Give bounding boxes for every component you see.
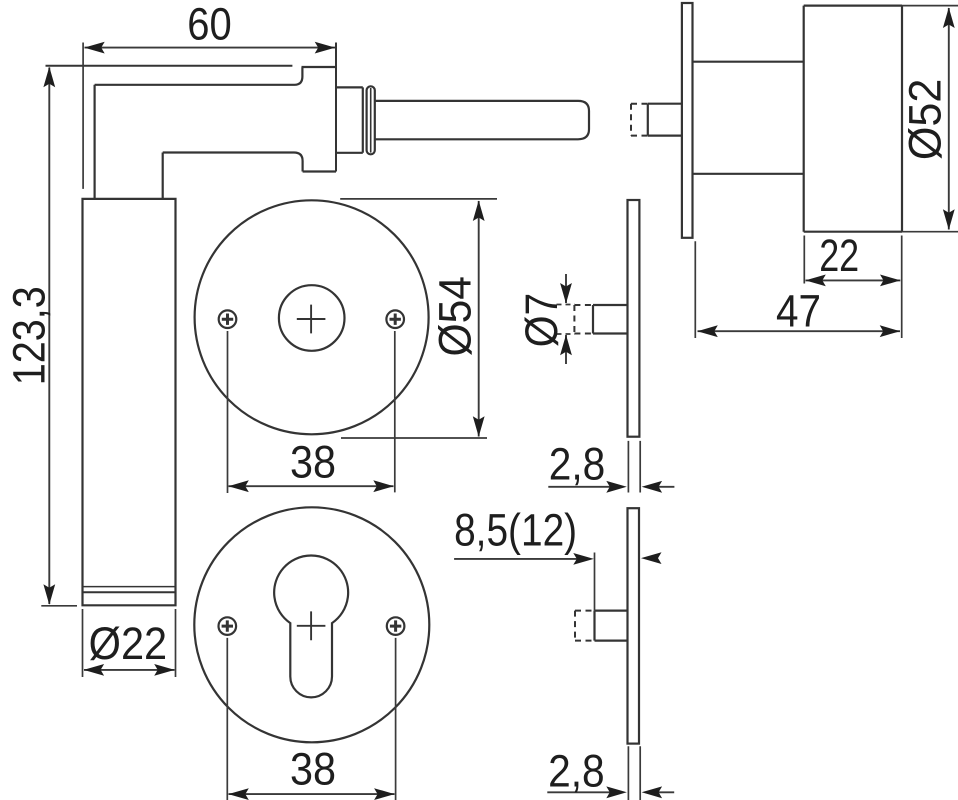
dimension Ø7: lower arrow line (565, 335, 567, 364)
upper rosette fixing peg solid part (593, 305, 628, 334)
dimension 38 lower: line (229, 793, 395, 795)
dimension 2,8 lower: extension lines (628, 746, 640, 800)
upper rosette fixing peg hidden part (dashed) (574, 305, 593, 334)
dimension Ø52: extension lines (902, 6, 958, 232)
arrowhead Ø22 right (154, 664, 175, 676)
lever handle grip cylinder rectangle (83, 199, 176, 605)
svg-text:2,8: 2,8 (549, 438, 606, 489)
lower rosette fixing peg hidden part (dashed) (575, 611, 595, 641)
lower rosette center cross (297, 611, 326, 640)
svg-text:Ø22: Ø22 (89, 618, 168, 669)
grip end groove line 2 (83, 591, 176, 593)
arrowhead 38 upper right (373, 480, 394, 492)
lower rosette left screw (219, 617, 237, 635)
svg-text:Ø52: Ø52 (900, 79, 951, 160)
svg-text:8,5(12): 8,5(12) (454, 505, 577, 556)
arrowhead 38 upper left (228, 480, 249, 492)
dimension 38 upper: line (229, 485, 394, 487)
dimension Ø7: dashed extension ticks (557, 305, 576, 335)
arrowhead Ø52 top (943, 8, 955, 29)
svg-text:22: 22 (819, 230, 859, 281)
arrowhead 8,5(12) pointing right (573, 553, 594, 565)
dimension Ø52: line (948, 8, 950, 230)
dimension 60: line (85, 47, 336, 49)
lever handle side view: top outline (46, 65, 293, 67)
dimension 22: extension lines (804, 236, 901, 339)
dimension 123,3: bottom extension tick (41, 605, 77, 607)
dimension 47: line (698, 330, 901, 332)
grip end groove line 1 (83, 586, 176, 588)
handle bearing housing rectangle (336, 87, 363, 152)
dimension 8,5(12): vertical reference line (594, 553, 596, 611)
arrowhead 2,8 upper right pointing left (642, 481, 663, 493)
knob spindle stub hidden part (dashed) (631, 104, 648, 136)
arrowhead 38 lower left (228, 788, 249, 800)
arrowhead 47 left (697, 325, 718, 337)
knob stem (693, 62, 804, 174)
lever handle inner bend vertical edge (93, 85, 95, 199)
arrowhead 60 left (84, 42, 105, 54)
knob head rectangle (804, 6, 902, 232)
svg-text:Ø7: Ø7 (516, 293, 567, 348)
upper rosette left screw (219, 310, 237, 328)
arrowhead 2,8 lower left pointing right (606, 786, 627, 798)
dimension 38 lower: extension lines from screws (227, 638, 395, 800)
arrowhead 22 right (880, 275, 901, 287)
dimension 2,8 upper: extension lines (628, 441, 640, 493)
dimension 38 upper: extension lines from screws (228, 331, 395, 493)
lower rosette face circle (194, 507, 429, 742)
lever handle neck bottom line with fillet into collar (163, 153, 303, 172)
dimension Ø54: extension lines top and bottom (340, 199, 497, 438)
svg-text:2,8: 2,8 (548, 746, 605, 797)
arrowhead Ø52 bottom (943, 209, 955, 230)
svg-text:47: 47 (776, 285, 821, 336)
dimension 123,3: line (48, 68, 50, 605)
arrowhead 2,8 upper left pointing right (606, 481, 627, 493)
lever handle collar right edge / dimension extension (335, 43, 337, 172)
lower rosette side-view plate (628, 508, 640, 743)
arrowhead Ø54 bottom (473, 416, 485, 437)
svg-text:123,3: 123,3 (3, 286, 54, 385)
dimension Ø22: extension lines (83, 609, 176, 677)
arrowhead 22 left (805, 275, 826, 287)
dimension 2,8 upper: left line and right line (548, 486, 674, 488)
arrowhead Ø7 upper pointing down (560, 283, 572, 304)
arrowhead 123,3 bottom (43, 584, 55, 605)
arrowhead 2,8 lower right pointing left (642, 786, 663, 798)
lever handle neck-to-grip vertical edge (162, 153, 164, 199)
knob spindle stub solid part (648, 104, 682, 136)
dimension 22: line (806, 279, 901, 281)
dimension 2,8 lower: left line and right line (547, 791, 674, 793)
dimension Ø7: upper arrow line (565, 274, 567, 303)
dimension 47: extension line left (694, 241, 696, 338)
arrowhead Ø22 left (84, 664, 105, 676)
dimension Ø22: line (84, 669, 175, 671)
arrowhead Ø54 top (473, 201, 485, 222)
dimension 8,5(12): leader line under text (454, 558, 585, 560)
lower rosette right screw (387, 617, 405, 635)
upper rosette face circle (195, 200, 429, 434)
arrowhead 8,5(12) right pointing left (641, 552, 662, 564)
dimension Ø54: line (478, 201, 480, 437)
spindle rod (375, 101, 589, 139)
retaining ring inner edge (370, 88, 372, 153)
arrowhead 60 right (315, 42, 336, 54)
upper rosette right screw (386, 310, 404, 328)
dimension 8,5(12): right arrow tail (650, 557, 656, 559)
arrowhead 123,3 top (43, 67, 55, 88)
lower rosette fixing peg solid part (595, 611, 628, 641)
arrowhead Ø7 lower pointing up (560, 335, 572, 356)
lever handle collar top edge (302, 66, 337, 68)
svg-text:60: 60 (187, 0, 232, 49)
arrowhead 47 right (880, 325, 901, 337)
upper rosette center cross (297, 305, 326, 334)
svg-text:Ø54: Ø54 (429, 276, 480, 357)
upper rosette spindle hole circle (279, 285, 345, 351)
svg-text:38: 38 (290, 437, 336, 488)
upper rosette side-view plate (628, 200, 640, 437)
lower rosette PZ keyhole outline (274, 556, 348, 698)
lever handle inner top line with fillet into collar step (95, 67, 303, 85)
arrowhead 38 lower right (374, 788, 395, 800)
dimension 60: extension line left (82, 43, 84, 189)
retaining ring washer (367, 86, 375, 154)
knob side-view rose plate (682, 3, 693, 238)
svg-text:38: 38 (290, 744, 336, 795)
lever handle collar bottom edge (303, 170, 336, 172)
